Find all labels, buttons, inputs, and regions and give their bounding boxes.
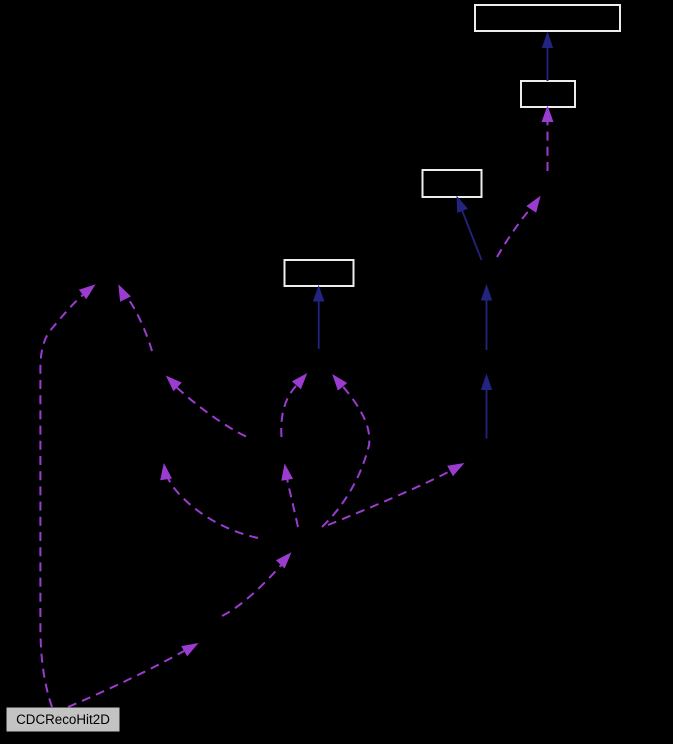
node box top-right (empty label): [475, 5, 620, 31]
collaboration edge node N0 to node M: [497, 196, 541, 257]
collaboration edge node K1 to node N1 (left): [281, 373, 307, 437]
inheritance arrow node N2 to node N0: [481, 284, 492, 350]
collaboration edge node H to node N3: [328, 463, 465, 525]
collaboration edge node H to node L2: [160, 463, 258, 538]
collaboration edge node H to node N1 (right bulge): [322, 374, 369, 527]
collaboration edge CDCRecoHit2D to node L0 (long left curve): [40, 284, 95, 707]
collaboration edge node L1 to node L0: [118, 284, 152, 351]
inheritance arrow node N1 to box4: [313, 285, 325, 349]
inheritance arrow node N3 to node N2: [481, 374, 492, 439]
node CDCRecoHit2D (main node, filled): [7, 708, 120, 732]
inheritance arrow node N0 to box3 (tilted): [457, 196, 482, 261]
node box middle (empty label): [285, 260, 354, 286]
collaboration edge node M to box2: [542, 106, 554, 172]
node box third right (empty label): [423, 170, 482, 197]
collaboration edge node H to node K1: [281, 464, 298, 528]
collaboration edge node B1 to node H: [222, 552, 292, 616]
collaboration edge node K1 to node L1: [166, 376, 246, 437]
inheritance arrow box2 to box1: [542, 32, 553, 82]
node box second right (empty label): [521, 81, 575, 107]
collaboration edge CDCRecoHit2D to node B1: [68, 643, 199, 707]
svg-text:CDCRecoHit2D: CDCRecoHit2D: [16, 712, 110, 727]
